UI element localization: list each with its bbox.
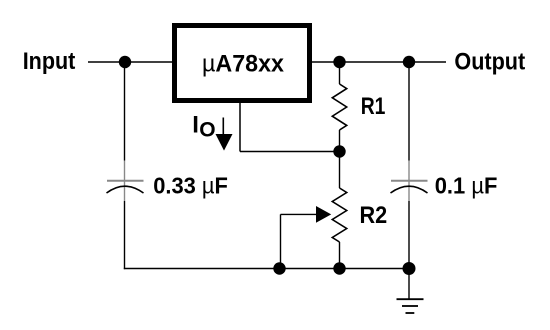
label R2 (360, 202, 388, 229)
svg-text:I: I (192, 111, 199, 138)
wire right vertical upper (408, 62, 410, 161)
node R1 R2 junction (333, 145, 345, 157)
node ground junction (403, 262, 416, 275)
wire capacitor C2 lead (gray) (408, 161, 410, 202)
label U1 µA78xx (202, 50, 285, 77)
label Input (23, 48, 76, 75)
wire left vertical upper (124, 62, 126, 161)
svg-text:0.1 µF: 0.1 µF (435, 172, 498, 198)
capacitor C2 bottom plate arc (391, 186, 428, 193)
regulator U1 box (175, 26, 310, 101)
wire left vertical lower (124, 201, 126, 269)
capacitor C2 top plate (391, 180, 428, 182)
wire capacitor C1 lead (gray) (124, 161, 126, 202)
svg-text:O: O (199, 118, 215, 141)
node output capacitor junction (403, 56, 415, 68)
svg-text:R2: R2 (360, 202, 388, 229)
svg-text:Input: Input (23, 48, 76, 75)
wire bottom horizontal (124, 268, 409, 270)
ground symbol (397, 299, 424, 313)
label Output (454, 48, 525, 75)
node input junction (119, 56, 131, 68)
current arrow IO (216, 118, 233, 151)
wire wiper horizontal (281, 213, 318, 215)
svg-text:µA78xx: µA78xx (202, 50, 285, 77)
label C1 value 0.33 µF (153, 172, 228, 198)
node R2 bottom junction (333, 262, 345, 274)
capacitor C1 top plate (107, 180, 144, 182)
svg-text:0.33 µF: 0.33 µF (153, 172, 228, 198)
R2 wiper arrow (316, 206, 331, 223)
wire regulator ground pin horizontal (240, 151, 340, 153)
resistor R1 (332, 62, 346, 152)
resistor R2 adjustable (332, 152, 346, 269)
svg-text:R1: R1 (361, 93, 386, 120)
wire right vertical lower (408, 201, 410, 269)
svg-text:Output: Output (454, 48, 525, 75)
label C2 value 0.1 µF (435, 172, 498, 198)
wire wiper vertical (280, 214, 282, 268)
node regulator output junction (333, 56, 345, 68)
label IO (192, 111, 215, 141)
capacitor C1 bottom plate arc (107, 186, 144, 193)
label R1 (361, 93, 386, 120)
wire ground vertical (408, 269, 410, 300)
wire regulator ground pin vertical (239, 103, 241, 152)
node wiper bottom junction (273, 262, 285, 274)
wire input horizontal (88, 61, 172, 63)
wire output horizontal (312, 61, 446, 63)
